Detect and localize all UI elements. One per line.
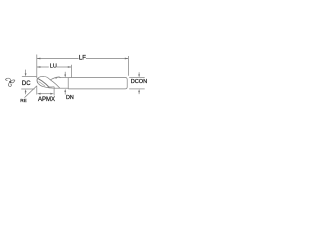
svg-text:LU: LU [50,63,57,69]
svg-text:LF: LF [79,56,86,62]
svg-text:DCON: DCON [131,79,147,85]
svg-text:APMX: APMX [38,97,55,103]
svg-text:DN: DN [66,95,74,101]
svg-text:RE: RE [20,98,26,103]
svg-text:DC: DC [22,81,31,87]
